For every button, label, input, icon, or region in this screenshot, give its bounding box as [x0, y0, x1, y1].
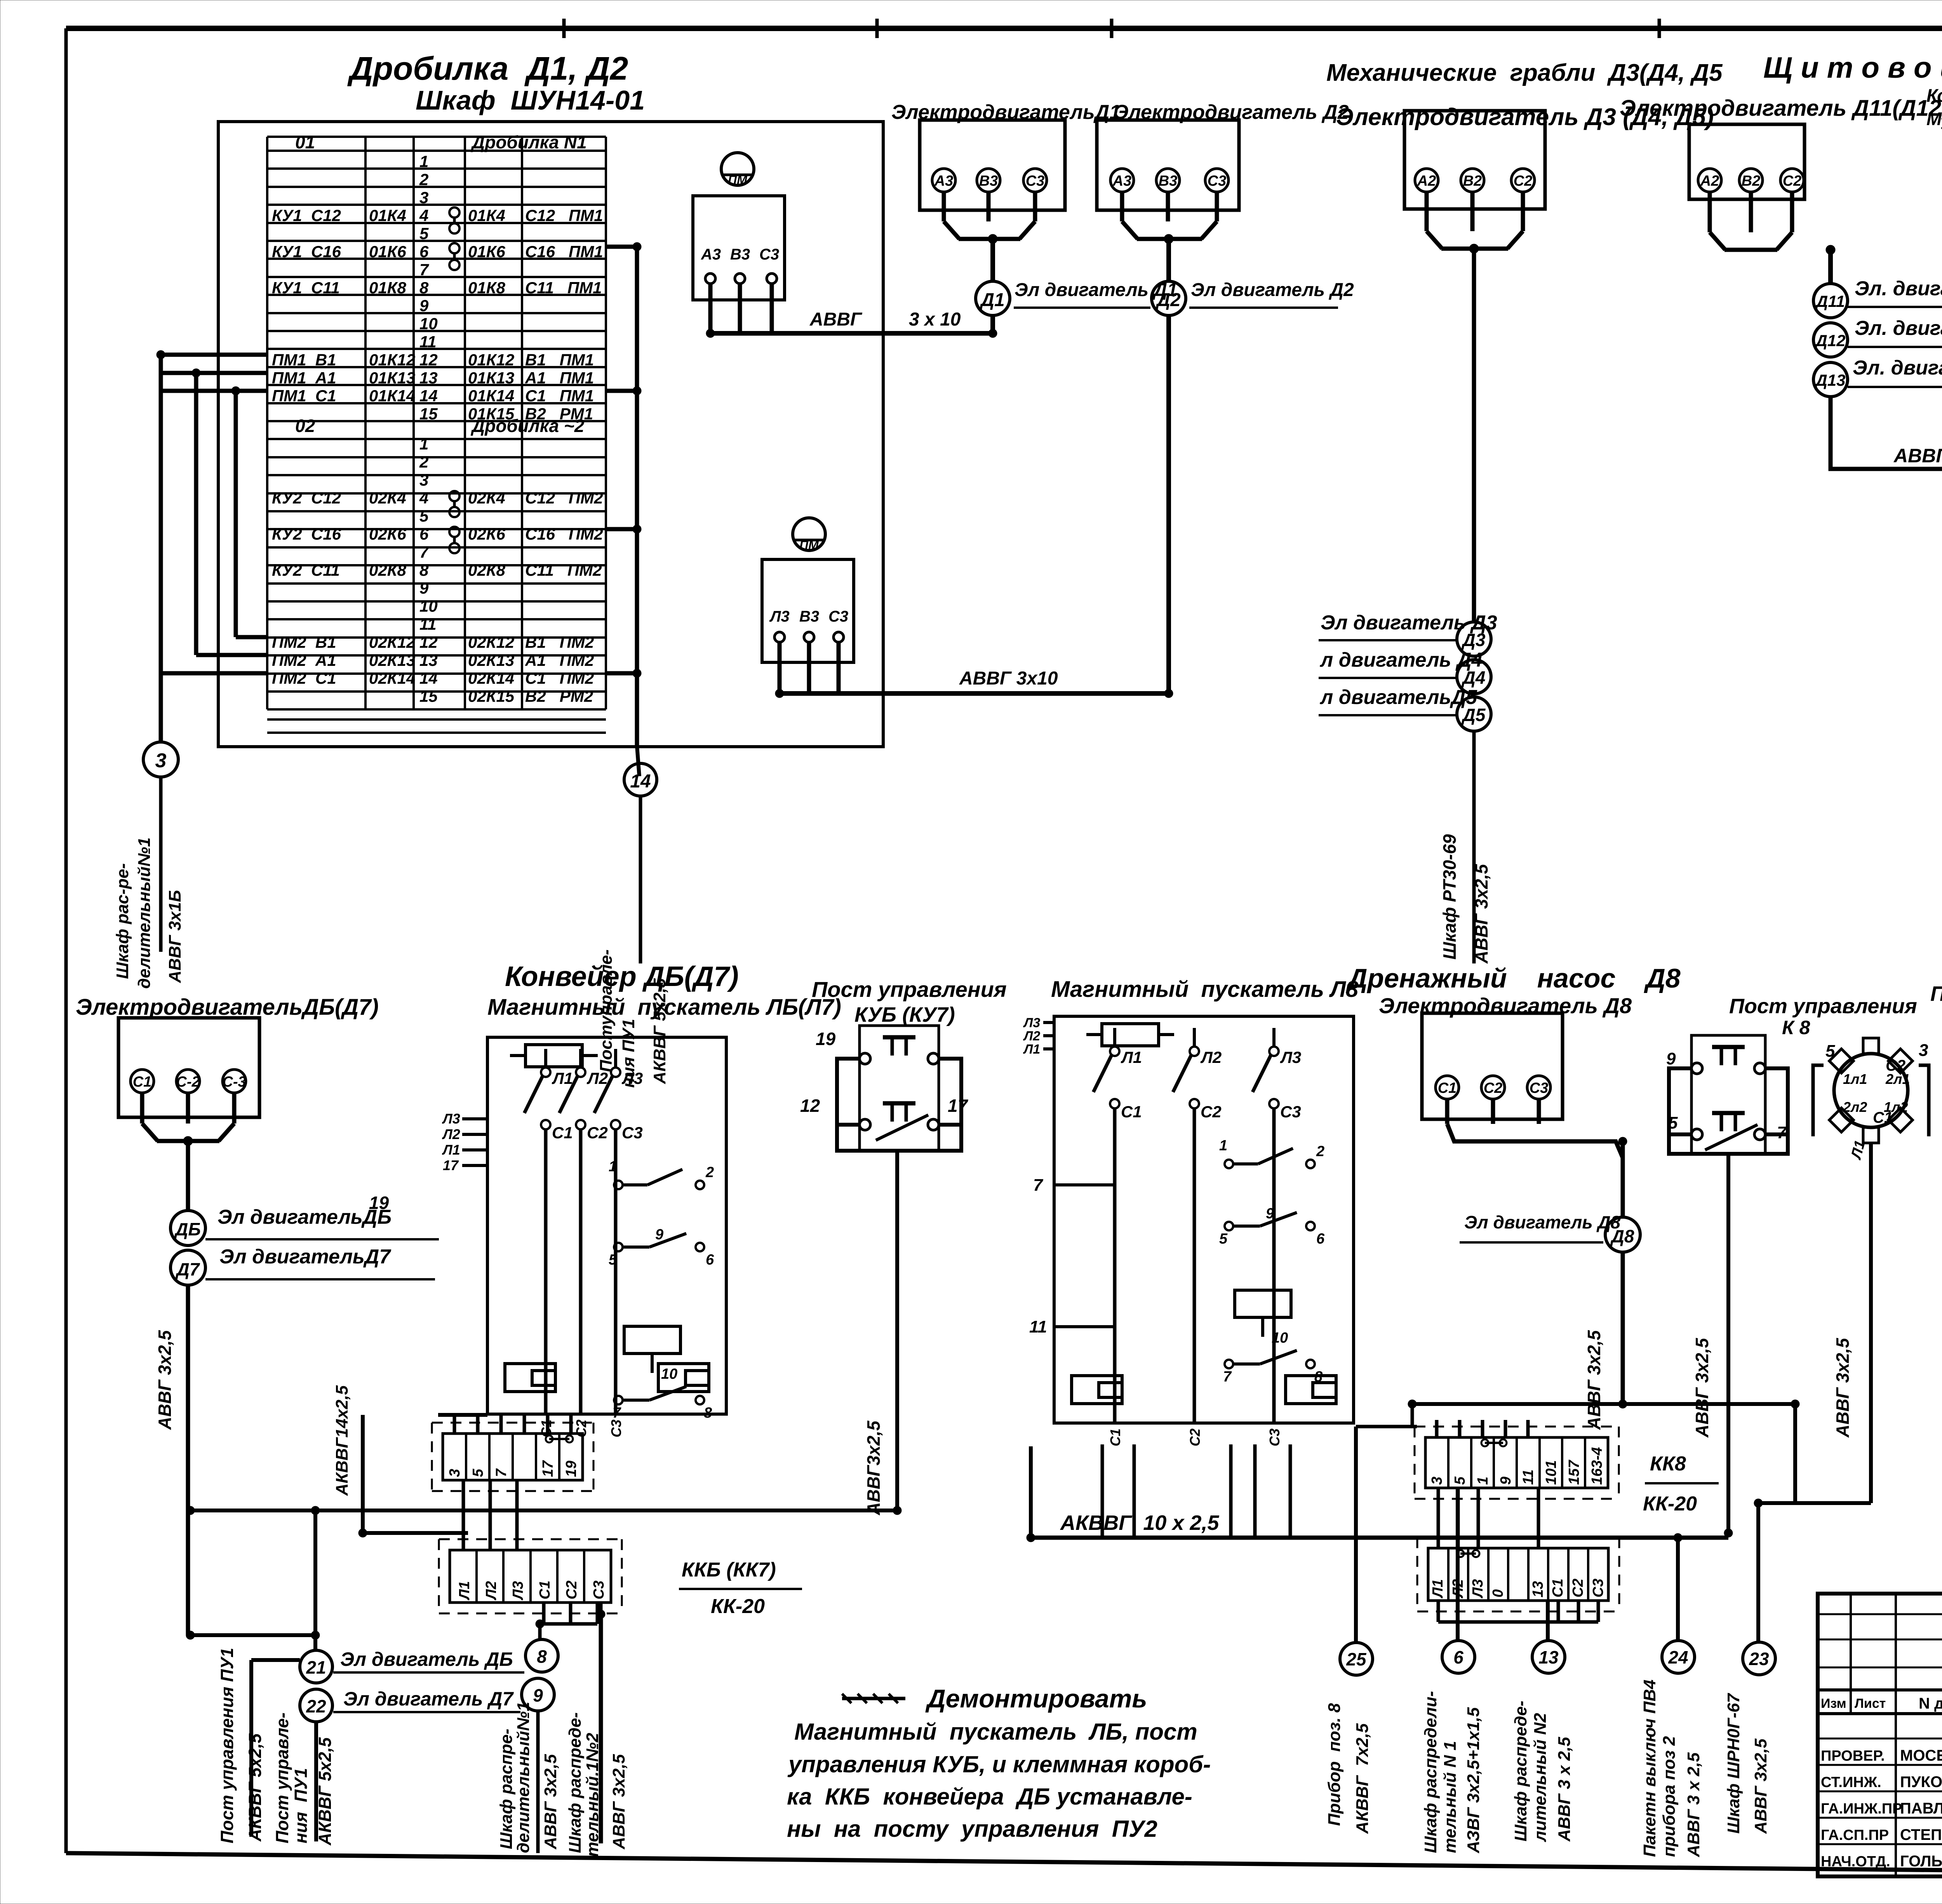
svg-text:17: 17 — [540, 1460, 556, 1477]
svg-text:АКВВГ 10 х 2,5: АКВВГ 10 х 2,5 — [1060, 1511, 1219, 1535]
svg-text:11: 11 — [419, 615, 437, 633]
svg-text:АВВГ 3 х 2,5: АВВГ 3 х 2,5 — [1684, 1752, 1703, 1857]
svg-text:управления КУБ, и клеммная кор: управления КУБ, и клеммная короб- — [787, 1751, 1211, 1777]
svg-text:13: 13 — [1538, 1647, 1559, 1667]
svg-text:А2: А2 — [1417, 173, 1436, 189]
svg-text:А1 ПМ1: А1 ПМ1 — [525, 369, 594, 387]
svg-text:А3: А3 — [701, 246, 721, 263]
svg-text:5: 5 — [419, 507, 429, 525]
svg-text:К 8: К 8 — [1782, 1017, 1810, 1038]
svg-text:01К8: 01К8 — [369, 279, 407, 297]
svg-text:01К12: 01К12 — [468, 350, 514, 369]
svg-text:КУ1 С16: КУ1 С16 — [272, 242, 341, 261]
svg-text:01К13: 01К13 — [369, 369, 415, 387]
svg-text:В3: В3 — [799, 608, 819, 625]
svg-text:Эл. двигатель Д 11: Эл. двигатель Д 11 — [1855, 277, 1942, 300]
svg-text:11: 11 — [419, 333, 437, 351]
svg-text:МОСЕЕНКО: МОСЕЕНКО — [1900, 1747, 1942, 1764]
svg-text:КУБ (КУ7): КУБ (КУ7) — [854, 1003, 955, 1026]
svg-text:С2: С2 — [1783, 173, 1802, 189]
svg-text:Пост управления: Пост управления — [1729, 995, 1917, 1018]
svg-text:Л3: Л3 — [621, 1069, 643, 1087]
svg-text:Пакетный переключатель: Пакетный переключатель — [1930, 982, 1942, 1005]
svg-text:КУ2 С11: КУ2 С11 — [272, 561, 340, 579]
svg-text:АВВГ 3х2,5: АВВГ 3х2,5 — [1471, 864, 1491, 964]
svg-text:АКВВГ 5х2,5: АКВВГ 5х2,5 — [650, 978, 669, 1084]
svg-text:01К14: 01К14 — [468, 387, 514, 405]
svg-text:2: 2 — [705, 1164, 714, 1181]
svg-text:17: 17 — [948, 1096, 969, 1116]
svg-text:ПРОВЕР.: ПРОВЕР. — [1821, 1748, 1885, 1764]
svg-text:Д1: Д1 — [979, 290, 1004, 310]
svg-text:С2: С2 — [1187, 1428, 1203, 1446]
svg-text:6: 6 — [706, 1252, 714, 1268]
svg-text:ПМ: ПМ — [728, 173, 748, 187]
svg-text:Л3: Л3 — [1470, 1579, 1486, 1599]
svg-text:ПМ1 В1: ПМ1 В1 — [272, 350, 336, 369]
svg-text:Л1: Л1 — [456, 1581, 473, 1601]
svg-text:N докум: N докум — [1919, 1695, 1942, 1712]
svg-text:Л2: Л2 — [1023, 1029, 1040, 1043]
svg-text:В2: В2 — [1742, 173, 1761, 189]
svg-text:02К13: 02К13 — [369, 651, 415, 669]
svg-text:3: 3 — [1429, 1477, 1445, 1485]
svg-text:ПМ2 С1: ПМ2 С1 — [272, 669, 336, 687]
svg-text:С3: С3 — [608, 1420, 624, 1437]
svg-text:01К8: 01К8 — [468, 279, 506, 297]
svg-text:Конвейер ДБ(Д7): Конвейер ДБ(Д7) — [505, 961, 739, 992]
svg-text:7: 7 — [419, 260, 429, 279]
svg-text:С1: С1 — [133, 1074, 152, 1090]
svg-text:9: 9 — [1498, 1477, 1514, 1485]
svg-text:ГА.СП.ПР: ГА.СП.ПР — [1821, 1827, 1889, 1843]
svg-text:С3: С3 — [1026, 173, 1045, 189]
svg-text:АВВГ3х2,5: АВВГ3х2,5 — [863, 1420, 884, 1516]
svg-text:ния ПУ1: ния ПУ1 — [291, 1768, 311, 1843]
svg-text:АКВВГ 5х2,5: АКВВГ 5х2,5 — [245, 1733, 265, 1842]
svg-text:Эл двигательД7: Эл двигательД7 — [219, 1246, 391, 1268]
svg-text:ККБ (КК7): ККБ (КК7) — [682, 1559, 776, 1581]
svg-text:Дробилка N1: Дробилка N1 — [470, 132, 587, 152]
svg-text:Л1: Л1 — [1121, 1048, 1142, 1066]
svg-text:9: 9 — [1666, 1049, 1676, 1068]
svg-text:23: 23 — [1749, 1649, 1769, 1669]
svg-text:Л1: Л1 — [442, 1142, 460, 1158]
svg-text:СТ.ИНЖ.: СТ.ИНЖ. — [1821, 1774, 1881, 1791]
svg-text:В2 РМ2: В2 РМ2 — [525, 687, 593, 706]
svg-text:17: 17 — [443, 1157, 459, 1173]
svg-text:22: 22 — [306, 1696, 326, 1716]
svg-text:Л2: Л2 — [586, 1069, 608, 1087]
svg-text:Л2: Л2 — [1200, 1048, 1222, 1066]
svg-text:02К14: 02К14 — [369, 669, 415, 687]
svg-text:Эл двигатель ДБ: Эл двигатель ДБ — [340, 1648, 513, 1670]
svg-text:Дробилка Д1, Д2: Дробилка Д1, Д2 — [347, 50, 628, 87]
svg-text:С2: С2 — [1484, 1080, 1503, 1096]
svg-text:С-3: С-3 — [222, 1074, 246, 1090]
svg-text:3: 3 — [447, 1469, 463, 1477]
svg-text:4: 4 — [419, 206, 428, 225]
svg-text:3 х 10: 3 х 10 — [909, 309, 961, 330]
svg-text:ПУКОВА: ПУКОВА — [1900, 1773, 1942, 1791]
svg-text:1: 1 — [1219, 1138, 1227, 1154]
svg-text:01: 01 — [295, 132, 315, 152]
svg-text:КУ1 С11: КУ1 С11 — [272, 279, 340, 297]
svg-text:Пакетн выключ ПВ4: Пакетн выключ ПВ4 — [1640, 1679, 1659, 1857]
svg-text:прибора поз 2: прибора поз 2 — [1660, 1736, 1679, 1857]
svg-text:КУ2 С16: КУ2 С16 — [272, 525, 341, 543]
svg-text:тельный N 1: тельный N 1 — [1441, 1741, 1460, 1853]
svg-text:19: 19 — [369, 1193, 389, 1213]
svg-text:01К13: 01К13 — [468, 369, 514, 387]
svg-text:ПМ1 С1: ПМ1 С1 — [272, 387, 336, 405]
svg-text:02К8: 02К8 — [369, 561, 407, 579]
svg-text:Эл двигатель Д7: Эл двигатель Д7 — [343, 1688, 514, 1710]
svg-text:ГА.ИНЖ.ПР: ГА.ИНЖ.ПР — [1821, 1801, 1902, 1817]
svg-text:С3: С3 — [622, 1124, 643, 1142]
svg-text:С1: С1 — [1121, 1103, 1142, 1121]
svg-text:6: 6 — [1453, 1647, 1463, 1667]
svg-text:АВВГ 3х1Б: АВВГ 3х1Б — [165, 890, 184, 983]
svg-text:С16 ПМ1: С16 ПМ1 — [525, 242, 603, 261]
svg-text:С12 ПМ1: С12 ПМ1 — [525, 206, 603, 225]
svg-text:10: 10 — [1272, 1330, 1288, 1346]
svg-text:02К12: 02К12 — [369, 633, 415, 651]
svg-text:Пост управле-: Пост управле- — [272, 1712, 292, 1843]
svg-text:Изм: Изм — [1821, 1696, 1846, 1711]
svg-text:4: 4 — [419, 489, 428, 507]
svg-text:АВВГ 3х2,5: АВВГ 3х2,5 — [1751, 1739, 1770, 1834]
svg-text:л двигательД5: л двигательД5 — [1319, 686, 1477, 709]
svg-text:01К4: 01К4 — [468, 206, 505, 225]
svg-text:163-4: 163-4 — [1589, 1447, 1605, 1485]
svg-text:С1: С1 — [537, 1580, 553, 1599]
svg-text:Шкаф распреде-: Шкаф распреде- — [1511, 1701, 1530, 1841]
svg-text:19: 19 — [816, 1029, 836, 1049]
svg-text:02К4: 02К4 — [369, 489, 406, 507]
svg-text:С16 ПМ2: С16 ПМ2 — [525, 525, 603, 543]
svg-text:9: 9 — [419, 296, 429, 315]
svg-text:С1 ПМ2: С1 ПМ2 — [525, 669, 594, 687]
svg-text:С1: С1 — [552, 1124, 573, 1142]
svg-text:В3: В3 — [1159, 173, 1178, 189]
svg-text:3: 3 — [1919, 1041, 1928, 1060]
svg-text:ны на посту управления ПУ2: ны на посту управления ПУ2 — [787, 1816, 1157, 1842]
svg-text:02К6: 02К6 — [468, 525, 506, 543]
svg-text:Эл двигатель Д1: Эл двигатель Д1 — [1015, 280, 1178, 300]
svg-text:02К4: 02К4 — [468, 489, 505, 507]
svg-text:Л3: Л3 — [769, 608, 790, 625]
svg-text:02: 02 — [295, 416, 315, 436]
svg-text:14: 14 — [419, 387, 438, 405]
svg-text:С11 ПМ1: С11 ПМ1 — [525, 279, 602, 297]
svg-text:ГОЛЬЦМАН: ГОЛЬЦМАН — [1900, 1853, 1942, 1870]
svg-text:Прибор поз. 8: Прибор поз. 8 — [1325, 1703, 1344, 1826]
svg-text:Пост управления: Пост управления — [812, 977, 1007, 1002]
svg-text:Эл. двигатель Д 13: Эл. двигатель Д 13 — [1853, 357, 1942, 379]
svg-text:11: 11 — [1520, 1470, 1537, 1485]
svg-text:1: 1 — [419, 435, 428, 453]
svg-text:А1 ПМ2: А1 ПМ2 — [525, 651, 594, 669]
svg-text:02К13: 02К13 — [468, 651, 514, 669]
svg-text:Л2: Л2 — [442, 1126, 460, 1142]
svg-text:01К4: 01К4 — [369, 206, 406, 225]
svg-text:Электродвигатель Д11(Д12,Д13): Электродвигатель Д11(Д12,Д13) — [1620, 96, 1942, 121]
svg-text:3: 3 — [155, 749, 167, 772]
svg-text:7: 7 — [1223, 1369, 1232, 1385]
svg-text:14: 14 — [630, 771, 651, 792]
svg-text:12: 12 — [419, 350, 438, 369]
svg-text:С11 ПМ2: С11 ПМ2 — [525, 561, 602, 579]
svg-text:АВВГ 3х2,5: АВВГ 3х2,5 — [541, 1754, 560, 1850]
svg-text:АВВГ: АВВГ — [809, 309, 863, 330]
svg-text:13: 13 — [419, 369, 438, 387]
svg-text:ка ККБ конвейера ДБ устанав: ка ККБ конвейера ДБ устанавле- — [787, 1784, 1192, 1810]
svg-text:10: 10 — [419, 597, 438, 615]
svg-text:С-2: С-2 — [176, 1074, 200, 1090]
svg-text:С2: С2 — [587, 1124, 608, 1142]
svg-text:АВВГ 3х2,5: АВВГ 3х2,5 — [1832, 1338, 1853, 1438]
svg-text:Шкаф рас-ре-: Шкаф рас-ре- — [113, 863, 132, 979]
svg-text:С3: С3 — [828, 608, 848, 625]
svg-text:3: 3 — [419, 471, 428, 489]
svg-text:10: 10 — [419, 315, 438, 333]
svg-text:л двигатель Д4: л двигатель Д4 — [1319, 649, 1483, 671]
svg-text:8: 8 — [704, 1405, 712, 1421]
svg-text:5: 5 — [609, 1252, 617, 1268]
svg-text:А3: А3 — [1112, 173, 1132, 189]
svg-text:КК-20: КК-20 — [1643, 1493, 1697, 1515]
svg-text:С1: С1 — [1438, 1080, 1457, 1096]
svg-text:С2: С2 — [1514, 173, 1533, 189]
svg-text:101: 101 — [1543, 1460, 1559, 1485]
svg-text:5: 5 — [1668, 1113, 1678, 1132]
svg-text:13: 13 — [1530, 1581, 1546, 1597]
svg-text:ЭлектродвигательДБ(Д7): ЭлектродвигательДБ(Д7) — [76, 995, 379, 1020]
svg-text:Л3: Л3 — [442, 1111, 460, 1127]
svg-text:лительный N2: лительный N2 — [1531, 1713, 1550, 1842]
svg-text:Л1: Л1 — [1430, 1579, 1446, 1599]
svg-text:Пост управления ПУ1: Пост управления ПУ1 — [217, 1648, 237, 1843]
svg-text:1: 1 — [419, 152, 428, 171]
svg-text:С3: С3 — [1530, 1080, 1549, 1096]
svg-text:Д12: Д12 — [1814, 331, 1845, 350]
svg-text:7: 7 — [1777, 1123, 1787, 1142]
svg-text:КК-20: КК-20 — [711, 1595, 765, 1618]
svg-text:А2: А2 — [1700, 173, 1719, 189]
svg-text:0: 0 — [1490, 1589, 1506, 1597]
svg-text:В3: В3 — [979, 173, 998, 189]
svg-text:АКВВГ 5х2,5: АКВВГ 5х2,5 — [315, 1737, 335, 1846]
svg-text:Л1: Л1 — [552, 1069, 573, 1087]
svg-text:9: 9 — [533, 1685, 543, 1705]
svg-text:В2 РМ1: В2 РМ1 — [525, 405, 593, 423]
svg-text:АВВГ 3 х 2,5: АВВГ 3 х 2,5 — [1893, 445, 1942, 467]
svg-text:С2: С2 — [564, 1580, 580, 1599]
svg-text:ПМ2 В1: ПМ2 В1 — [272, 633, 336, 651]
svg-text:Д13: Д13 — [1814, 371, 1845, 389]
svg-text:С1 ПМ1: С1 ПМ1 — [525, 387, 594, 405]
svg-text:АКВВГ 7х2,5: АКВВГ 7х2,5 — [1353, 1723, 1372, 1834]
svg-text:Эл двигатель Д2: Эл двигатель Д2 — [1191, 280, 1354, 300]
svg-text:С3: С3 — [1208, 173, 1227, 189]
svg-text:КУ2 С12: КУ2 С12 — [272, 489, 341, 507]
svg-text:02К6: 02К6 — [369, 525, 407, 543]
svg-text:ДБ: ДБ — [174, 1219, 201, 1239]
svg-text:АВВГ 3х2,5: АВВГ 3х2,5 — [1584, 1330, 1604, 1430]
svg-text:9: 9 — [1266, 1205, 1274, 1222]
svg-text:НАЧ.ОТД.: НАЧ.ОТД. — [1821, 1853, 1890, 1870]
svg-text:С12 ПМ2: С12 ПМ2 — [525, 489, 603, 507]
svg-text:С3: С3 — [591, 1580, 607, 1599]
svg-text:АВВГ 3 х 2,5: АВВГ 3 х 2,5 — [1555, 1737, 1574, 1842]
svg-text:Щ и т о в о й з а т в о р: Щ и т о в о й з а т в о р Д 11 (Д 12, Д … — [1763, 51, 1942, 84]
svg-text:Механические грабли Д3(Д4, Д: Механические грабли Д3(Д4, Д5 — [1326, 59, 1723, 86]
svg-text:АВВГ 3х10: АВВГ 3х10 — [959, 668, 1058, 689]
svg-text:19: 19 — [563, 1461, 579, 1477]
svg-text:02К14: 02К14 — [468, 669, 514, 687]
svg-text:10: 10 — [661, 1366, 677, 1382]
svg-text:С3: С3 — [759, 246, 779, 263]
svg-text:Демонтировать: Демонтировать — [925, 1684, 1147, 1713]
svg-text:1л1: 1л1 — [1843, 1071, 1867, 1087]
svg-text:1: 1 — [1475, 1477, 1491, 1485]
svg-text:С3: С3 — [1280, 1103, 1301, 1121]
svg-text:С2: С2 — [1201, 1103, 1222, 1121]
svg-text:А3: А3 — [934, 173, 954, 189]
svg-text:2: 2 — [419, 453, 428, 471]
svg-text:Л1: Л1 — [1023, 1042, 1040, 1057]
svg-text:8: 8 — [537, 1646, 547, 1667]
svg-text:7: 7 — [613, 1405, 621, 1421]
svg-text:СТЕПАНЕНКО: СТЕПАНЕНКО — [1900, 1826, 1942, 1843]
svg-text:Шкаф ШУН14-01: Шкаф ШУН14-01 — [416, 85, 645, 115]
svg-text:КУ1 С12: КУ1 С12 — [272, 206, 341, 225]
svg-text:Эл двигатель Д3: Эл двигатель Д3 — [1321, 611, 1497, 634]
svg-text:21: 21 — [306, 1657, 326, 1678]
svg-text:Эл двигательДБ: Эл двигательДБ — [218, 1206, 392, 1228]
svg-text:тельный.1№2: тельный.1№2 — [583, 1733, 602, 1857]
svg-text:2л2: 2л2 — [1843, 1099, 1867, 1115]
svg-text:С1: С1 — [1550, 1578, 1566, 1597]
svg-text:01К15: 01К15 — [468, 405, 515, 423]
svg-text:2: 2 — [1316, 1143, 1324, 1160]
svg-text:2: 2 — [419, 170, 428, 188]
svg-text:12: 12 — [419, 633, 438, 651]
svg-text:АВВГ 3х2,5: АВВГ 3х2,5 — [1692, 1338, 1712, 1438]
svg-text:6: 6 — [1316, 1231, 1325, 1247]
svg-text:8: 8 — [419, 561, 429, 579]
svg-text:Лист: Лист — [1855, 1696, 1886, 1711]
svg-text:Шкаф ШРН0Г-67: Шкаф ШРН0Г-67 — [1724, 1693, 1743, 1834]
svg-text:5: 5 — [470, 1469, 486, 1477]
svg-text:6: 6 — [419, 525, 429, 543]
svg-text:14: 14 — [419, 669, 438, 687]
svg-text:Л2: Л2 — [483, 1581, 499, 1601]
svg-text:КК8: КК8 — [1650, 1453, 1686, 1475]
svg-text:С3: С3 — [1267, 1428, 1282, 1446]
svg-text:делительный№1: делительный№1 — [135, 838, 154, 989]
svg-text:7: 7 — [1033, 1176, 1044, 1195]
svg-text:02К8: 02К8 — [468, 561, 506, 579]
svg-text:В1 ПМ1: В1 ПМ1 — [525, 350, 594, 369]
svg-text:ПМ: ПМ — [799, 538, 819, 552]
svg-text:Дренажный насос Д8: Дренажный насос Д8 — [1346, 963, 1681, 993]
svg-text:С2: С2 — [1570, 1578, 1586, 1597]
svg-text:Шкаф распреде-: Шкаф распреде- — [566, 1712, 585, 1853]
svg-text:Л3: Л3 — [1023, 1016, 1040, 1030]
svg-text:АЗВГ 3х2,5+1х1,5: АЗВГ 3х2,5+1х1,5 — [1464, 1707, 1483, 1853]
svg-text:11: 11 — [1029, 1317, 1047, 1336]
svg-text:7: 7 — [493, 1468, 510, 1477]
svg-text:24: 24 — [1668, 1647, 1688, 1667]
svg-text:6: 6 — [419, 242, 429, 261]
svg-text:5: 5 — [419, 225, 429, 243]
svg-text:02К12: 02К12 — [468, 633, 514, 651]
svg-text:9: 9 — [419, 579, 429, 597]
svg-text:делительный№1: делительный№1 — [514, 1702, 533, 1853]
svg-text:8: 8 — [419, 279, 429, 297]
svg-text:Магнитный пускатель ЛБ, пост: Магнитный пускатель ЛБ, пост — [794, 1719, 1197, 1745]
svg-text:15: 15 — [419, 405, 438, 423]
svg-text:3: 3 — [419, 188, 428, 207]
svg-text:Магнитный пускатель ЛБ(Л7): Магнитный пускатель ЛБ(Л7) — [487, 995, 841, 1020]
svg-text:Д11: Д11 — [1815, 292, 1845, 310]
svg-text:5: 5 — [1825, 1042, 1835, 1061]
svg-text:Шкаф распредели-: Шкаф распредели- — [1421, 1691, 1440, 1853]
svg-text:С1: С1 — [1873, 1109, 1893, 1126]
svg-text:13: 13 — [419, 651, 438, 669]
svg-text:01К12: 01К12 — [369, 350, 415, 369]
svg-text:В1 ПМ2: В1 ПМ2 — [525, 633, 594, 651]
svg-text:25: 25 — [1346, 1649, 1367, 1669]
svg-text:2л1: 2л1 — [1885, 1071, 1910, 1087]
svg-text:Шкаф РТ30-69: Шкаф РТ30-69 — [1439, 834, 1460, 960]
svg-text:01К6: 01К6 — [468, 242, 506, 261]
svg-text:9: 9 — [655, 1226, 663, 1243]
svg-text:01К6: 01К6 — [369, 242, 407, 261]
svg-text:В3: В3 — [730, 246, 750, 263]
svg-text:Л3: Л3 — [510, 1581, 526, 1601]
svg-text:Шкаф распре-: Шкаф распре- — [497, 1729, 516, 1849]
svg-text:5: 5 — [1452, 1476, 1468, 1485]
svg-text:ПМ1 А1: ПМ1 А1 — [272, 369, 336, 387]
svg-text:12: 12 — [800, 1096, 820, 1116]
svg-text:С1: С1 — [1107, 1428, 1123, 1446]
svg-text:157: 157 — [1566, 1460, 1582, 1485]
svg-text:7: 7 — [419, 543, 429, 561]
svg-text:ПМ2 А1: ПМ2 А1 — [272, 651, 336, 669]
svg-text:С3: С3 — [1590, 1578, 1606, 1597]
svg-text:Л3: Л3 — [1280, 1048, 1301, 1066]
svg-text:Эл. двигатель Д 12: Эл. двигатель Д 12 — [1855, 317, 1942, 340]
svg-text:15: 15 — [419, 687, 438, 706]
svg-text:АВВГ 3х2,5: АВВГ 3х2,5 — [609, 1754, 628, 1850]
svg-text:5: 5 — [1219, 1231, 1228, 1247]
svg-text:АКВВГ14х2,5: АКВВГ14х2,5 — [332, 1385, 352, 1496]
svg-text:Эл двигатель Д8: Эл двигатель Д8 — [1464, 1212, 1621, 1232]
svg-text:ПАВЛОВА: ПАВЛОВА — [1900, 1800, 1942, 1817]
svg-text:АВВГ 3х2,5: АВВГ 3х2,5 — [155, 1330, 175, 1430]
svg-text:01К14: 01К14 — [369, 387, 415, 405]
svg-text:1: 1 — [609, 1158, 617, 1175]
svg-text:В2: В2 — [1463, 173, 1482, 189]
svg-text:Магнитный пускатель Л8: Магнитный пускатель Л8 — [1051, 977, 1359, 1002]
svg-text:Д7: Д7 — [175, 1259, 200, 1279]
svg-text:02К15: 02К15 — [468, 687, 515, 706]
